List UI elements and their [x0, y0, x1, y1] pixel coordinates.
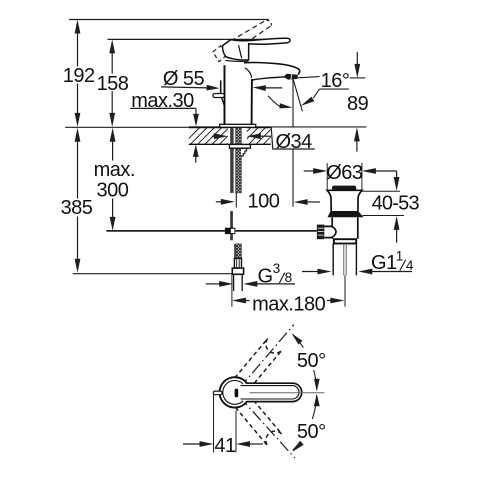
Ø63 arrows	[313, 168, 327, 174]
knurled pull-rod knob on drain	[317, 225, 325, 240]
upper 50 degree arc	[293, 334, 317, 389]
lever capsule (plan view)	[232, 383, 302, 401]
svg-text:192: 192	[63, 65, 95, 87]
mounting nut under deck	[229, 144, 250, 148]
left swing arc with arrowhead	[268, 96, 282, 107]
hose compression fitting	[234, 259, 241, 269]
svg-text:4: 4	[406, 258, 414, 273]
svg-text:50°: 50°	[297, 350, 326, 372]
faucet body circle (plan view)	[220, 378, 249, 407]
lower arc arrowheads	[314, 394, 320, 407]
white mounting hole in deck (Ø34)	[228, 126, 247, 143]
dimension 192 vertical line with arrows	[75, 20, 81, 34]
Ø55 right side arrow	[253, 85, 266, 91]
G3/8 threaded pipe	[233, 274, 235, 291]
drain centerline extension down	[344, 275, 346, 307]
svg-text:16°: 16°	[321, 70, 350, 92]
50 degree swing ray lower (dash-dot)	[239, 396, 295, 458]
stepped hose crimp end	[241, 148, 247, 156]
dashed raised lever position	[224, 20, 267, 45]
dashed lever position lower (rotated 50)	[235, 396, 282, 447]
40-53 top reference line	[362, 190, 400, 192]
100 dimension arrows	[221, 199, 235, 205]
41 dimension extension lines	[213, 395, 215, 453]
center slot detail	[235, 389, 239, 398]
aerator at spout outlet	[283, 74, 298, 80]
40-53 bottom reference line (gasket underside)	[363, 215, 405, 217]
50 degree swing ray upper (dash-dot)	[239, 325, 294, 389]
svg-text:G: G	[258, 265, 273, 287]
svg-text:Ø63: Ø63	[326, 162, 363, 184]
dimension 158 vertical line with arrows	[109, 39, 115, 53]
deck bottom edge right of shank	[250, 143, 270, 145]
drain flange body	[327, 190, 362, 212]
vertical pop-up rod link	[230, 211, 233, 240]
vertical line from aerator down	[292, 79, 294, 207]
svg-text:41: 41	[214, 435, 236, 457]
outer circle arc	[220, 377, 247, 407]
inner circle arc	[223, 381, 243, 405]
drain flange dome cap	[332, 186, 356, 191]
dimension max.300 vertical line with arrows	[110, 128, 116, 142]
hose centerline below hose end	[235, 193, 237, 208]
deck bottom edge left of shank	[189, 143, 230, 145]
16 degree slant line	[293, 79, 302, 112]
arrow up to deck underside (max.30)	[193, 144, 199, 157]
reference line top of raised lever (192 dim datum)	[69, 19, 269, 21]
leader from aerator to 16 label	[292, 77, 320, 79]
svg-text:158: 158	[97, 73, 129, 95]
faucet base escutcheon	[220, 124, 256, 127]
drain collar ring	[334, 239, 356, 243]
svg-text:max.180: max.180	[252, 294, 326, 316]
svg-text:89: 89	[347, 93, 369, 115]
lower braided hose segment	[234, 244, 236, 259]
Ø34 label box	[271, 128, 315, 149]
deck top drawn edge	[189, 126, 271, 128]
deck top extension to right / Ø34 box top	[271, 126, 367, 128]
Ø34 hole arrows in deck	[214, 133, 228, 139]
svg-text:385: 385	[61, 197, 93, 219]
faucet body outline	[224, 65, 226, 124]
spout root crease	[245, 68, 252, 78]
pull rod pin (plan view)	[213, 391, 222, 395]
Ø63 extension lines	[326, 163, 328, 190]
svg-text:40-53: 40-53	[372, 192, 420, 214]
threaded shank and braided hose below faucet	[230, 128, 233, 193]
lower 50 degree arc	[293, 395, 317, 450]
svg-text:300: 300	[96, 180, 128, 202]
G3/8 connection nut	[232, 268, 243, 274]
drain tailpipe	[332, 244, 334, 276]
rubber gasket	[328, 212, 364, 217]
horizontal pop-up rod (to drain)	[106, 230, 317, 232]
40-53 dimension line arrows	[396, 171, 398, 180]
reference line top of solid lever (158 dim datum)	[108, 38, 289, 40]
G1 1/4 arrows at tailpipe	[318, 269, 332, 275]
lever capsule inner line	[241, 386, 299, 399]
drain body below gasket	[332, 217, 358, 239]
spout underside	[252, 77, 286, 80]
41 dimension arrows	[200, 441, 214, 447]
white knockouts for 50 labels	[294, 348, 330, 371]
rod clamp fitting at cross	[225, 228, 235, 234]
svg-text:G1: G1	[371, 252, 397, 274]
horizontal centerline (plan view)	[250, 392, 325, 394]
faucet lever (solid)	[223, 38, 291, 60]
pop-up pull rod knob at faucet	[220, 81, 222, 94]
svg-text:8: 8	[285, 270, 292, 285]
cartridge dome seam	[226, 59, 249, 62]
svg-text:Ø34: Ø34	[275, 131, 312, 153]
knob cup into drain body	[324, 226, 336, 237]
deck top reference line extending left	[65, 126, 189, 128]
dimension 385 vertical line with arrows	[75, 128, 81, 142]
G3/8 dimension arrows	[219, 281, 233, 287]
svg-text:100: 100	[247, 190, 279, 212]
max.180 dimension	[232, 298, 246, 304]
lever inner diagonal	[239, 45, 242, 58]
svg-text:max.: max.	[94, 159, 135, 181]
dashed lever position upper (rotated 50)	[235, 338, 282, 389]
89 dimension top reference line	[350, 77, 366, 79]
right leader arc with arrowhead	[313, 89, 319, 98]
upper arc arrowheads	[291, 333, 302, 344]
svg-text:1: 1	[396, 248, 403, 263]
89 dimension line and arrows	[356, 52, 358, 67]
svg-text:50°: 50°	[297, 421, 326, 443]
tailpipe inner tube lines	[343, 244, 345, 276]
spout top edge	[244, 63, 300, 75]
lower supply reference line	[73, 273, 233, 275]
svg-text:3: 3	[273, 261, 280, 276]
extension line down from pipe (max.180 left)	[231, 274, 233, 307]
